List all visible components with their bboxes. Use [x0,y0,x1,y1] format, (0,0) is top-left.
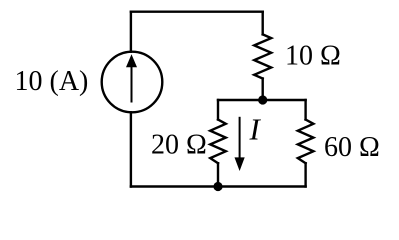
current source I1 arrow (upward) [126,54,137,102]
svg-text:20 Ω: 20 Ω [151,130,207,161]
wire: middle horizontal bus between 20-ohm and 60-ohm branches [218,99,306,101]
current arrow I (downward) between R2 and R3 [235,117,245,171]
svg-text:10 (A): 10 (A) [15,66,89,97]
svg-text:I: I [249,112,262,147]
wire: 20-ohm bottom to bottom node B [217,163,219,186]
svg-text:10 Ω: 10 Ω [285,41,341,72]
wire: stub to 60-ohm top [304,100,306,120]
node B junction dot (bottom, below R2) [213,182,222,191]
node A junction dot (below R1) [258,95,267,104]
wire: left vertical from top-left corner down to current source top [130,12,132,52]
wire: 60-ohm bottom to bottom-right corner [304,163,306,186]
resistor R1 10 ohm (zigzag) [254,34,271,78]
wire: R1 bottom to node A [262,79,264,101]
svg-text:60 Ω: 60 Ω [324,132,380,163]
current source I1 circle [102,52,163,113]
resistor R2 20 ohm (zigzag) [210,120,226,164]
wire: bottom horizontal [131,185,306,187]
wire: top horizontal [131,10,263,12]
wire: left vertical from current source bottom to bottom-left corner [130,112,132,186]
resistor R3 60 ohm (zigzag) [298,120,314,164]
wire: stub node A area vertical (already covered) to 20-ohm top [217,100,219,120]
wire: right vertical from top-right corner to R1 top [262,12,264,35]
